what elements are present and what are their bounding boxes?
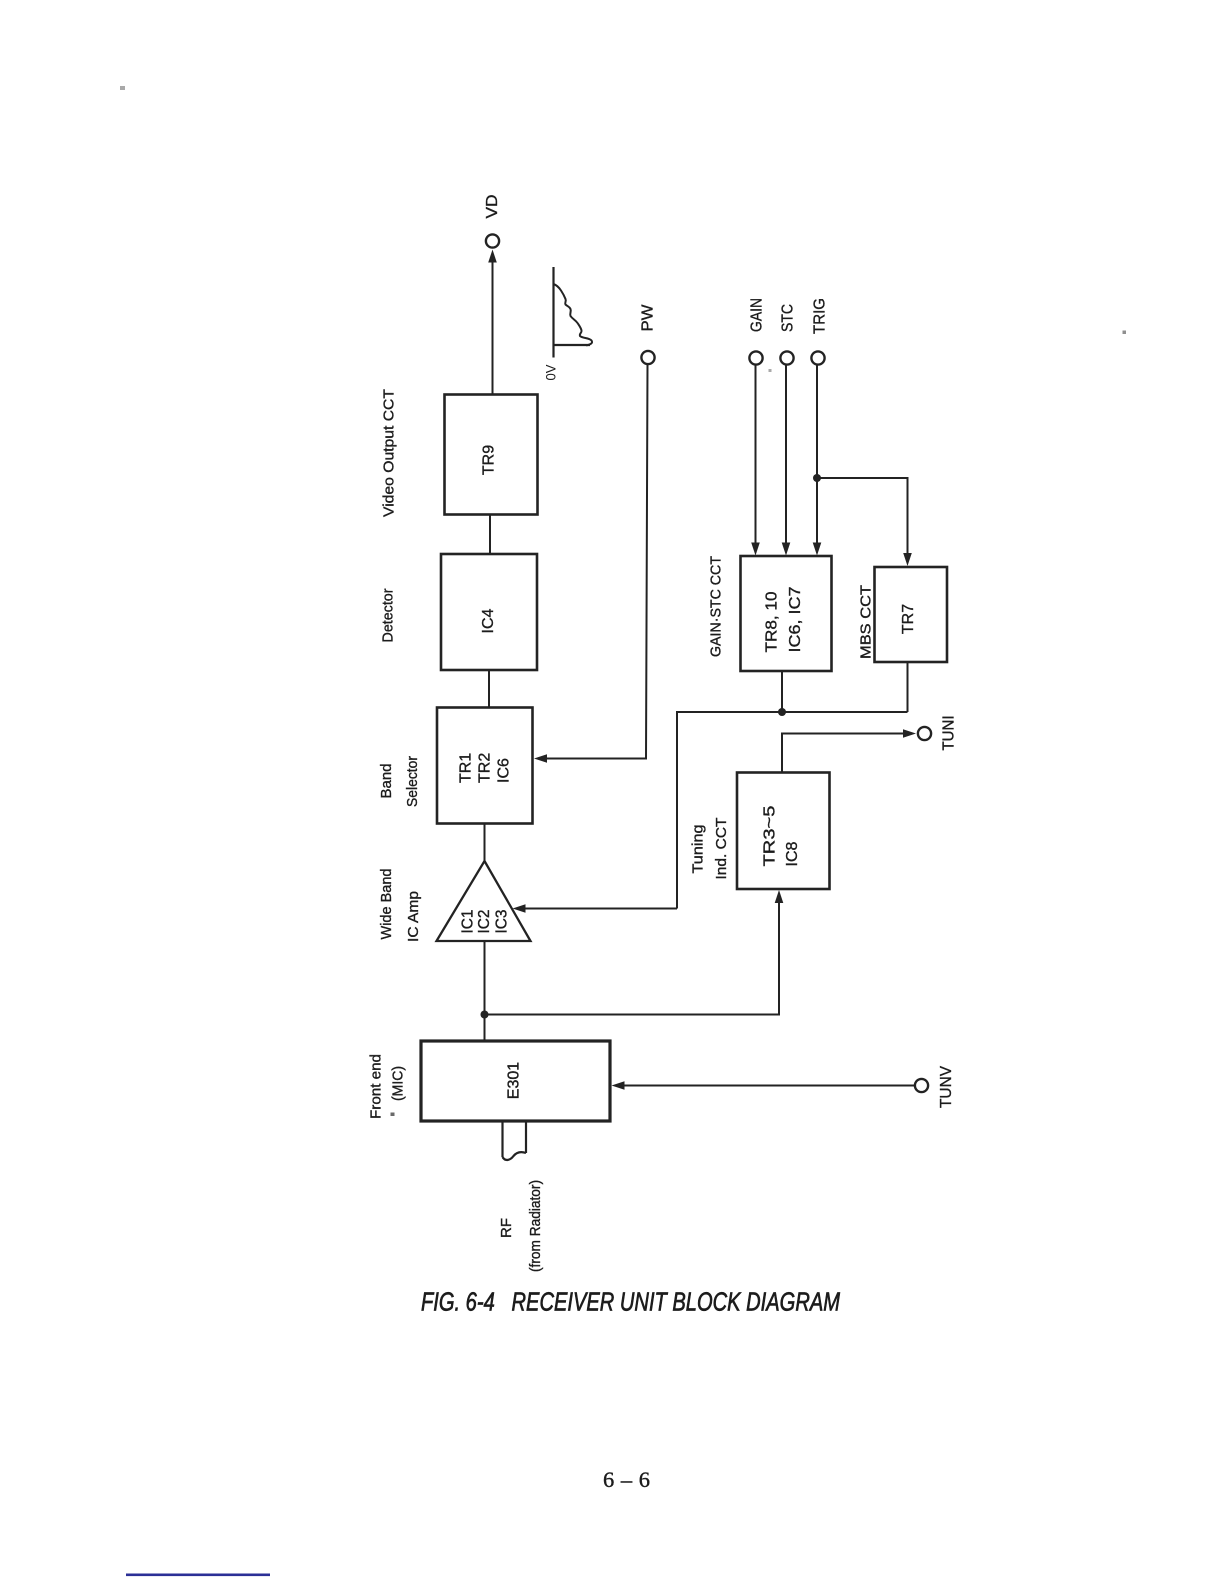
terminal PW [641, 351, 654, 364]
wire TRIG input [816, 365, 818, 544]
svg-text:TR7: TR7 [900, 604, 917, 634]
terminal STC [780, 351, 793, 364]
svg-text:Front end: Front end [368, 1054, 385, 1119]
block IC4 Detector [441, 554, 537, 670]
stray mark near MIC [391, 1113, 395, 1117]
block E301 Front end [421, 1041, 610, 1121]
wire Band Selector to amp [484, 823, 486, 861]
svg-text:Detector: Detector [380, 589, 397, 643]
svg-text:TR9: TR9 [481, 445, 498, 475]
arrow into GAIN-STC from GAIN [751, 543, 760, 556]
arrow into E301 from TUNV [612, 1081, 625, 1090]
arrow into Band Selector from PW [534, 754, 547, 763]
wire STC input [785, 365, 787, 544]
svg-text:Tuning: Tuning [690, 825, 707, 874]
svg-text:IC6, IC7: IC6, IC7 [787, 586, 804, 652]
block TR7 MBS CCT [875, 567, 948, 662]
svg-text:TRIG: TRIG [812, 298, 829, 334]
svg-text:Wide Band: Wide Band [378, 869, 395, 940]
svg-text:TR2: TR2 [477, 753, 494, 783]
svg-text:E301: E301 [506, 1062, 523, 1099]
amp triangle IC1 IC2 IC3 [437, 861, 531, 941]
RF stub waveguide [503, 1121, 527, 1160]
wire GAIN-STC bottom [781, 671, 783, 712]
wire TR9 to IC4 [489, 514, 491, 554]
svg-text:RF: RF [498, 1218, 515, 1238]
svg-text:IC Amp: IC Amp [405, 891, 422, 942]
svg-text:GAIN: GAIN [749, 298, 766, 332]
wire IC4 to Band Selector [488, 670, 490, 708]
terminal TRIG [811, 351, 824, 364]
svg-text:MBS CCT: MBS CCT [858, 585, 875, 659]
svg-text:(MIC): (MIC) [390, 1066, 407, 1101]
svg-text:TUNI: TUNI [941, 716, 958, 751]
svg-text:TUNV: TUNV [938, 1066, 955, 1108]
svg-text:IC1: IC1 [460, 909, 477, 933]
svg-text:VD: VD [484, 195, 501, 219]
stray mark top left [120, 86, 125, 90]
block TR3-5 IC8 Tuning Ind CCT [737, 773, 830, 890]
wire net to amp [524, 908, 677, 910]
stray speck right [1123, 331, 1127, 335]
node gain-stc junction [778, 708, 786, 716]
wire node A to tuning cct [485, 902, 780, 1015]
arrow into MBS [903, 553, 912, 566]
svg-text:IC2: IC2 [476, 909, 493, 933]
svg-text:Selector: Selector [404, 756, 421, 807]
svg-text:(from Radiator): (from Radiator) [527, 1180, 544, 1272]
svg-text:PW: PW [640, 304, 657, 332]
svg-text:IC6: IC6 [496, 758, 513, 783]
footer rule [126, 1574, 270, 1577]
waveform sketch [554, 267, 593, 358]
terminal VD [486, 234, 499, 247]
block TR1 TR2 IC6 Band Selector [437, 708, 533, 824]
wire VD output [492, 262, 494, 394]
svg-text:0V: 0V [543, 364, 559, 381]
arrow to VD [488, 250, 497, 263]
wire MBS bottom [907, 662, 909, 712]
wire TRIG to MBS [817, 478, 908, 554]
wire GAIN input [755, 365, 757, 544]
wire PW to Band Selector [546, 365, 648, 759]
arrow to TUNI [903, 729, 916, 738]
svg-text:GAIN·STC CCT: GAIN·STC CCT [708, 556, 725, 657]
wire TR3-5 to TUNI [782, 734, 906, 773]
svg-text:Video Output CCT: Video Output CCT [381, 389, 398, 517]
svg-text:IC8: IC8 [784, 842, 801, 867]
svg-text:IC4: IC4 [480, 608, 497, 633]
node TRIG junction [813, 474, 821, 482]
terminal GAIN [749, 351, 762, 364]
wire gain-stc net [677, 712, 908, 909]
terminal TUNI [918, 727, 931, 740]
svg-text:TR1: TR1 [458, 753, 475, 783]
block TR8 10 IC6 IC7 GAIN-STC CCT [741, 556, 832, 671]
block TR9 Video Output CCT [445, 395, 538, 515]
node A junction [481, 1011, 489, 1019]
arrow into TR3-5 [775, 890, 784, 903]
svg-text:Ind. CCT: Ind. CCT [713, 818, 730, 880]
terminal TUNV [915, 1079, 928, 1092]
svg-text:TR3~5: TR3~5 [762, 805, 779, 866]
svg-text:Band: Band [378, 764, 395, 799]
wire TUNV to E301 [624, 1085, 915, 1087]
svg-text:STC: STC [780, 304, 797, 332]
arrow into GAIN-STC from STC [782, 543, 791, 556]
wire amp to node A [484, 941, 486, 1041]
svg-text:6 – 6: 6 – 6 [603, 1467, 650, 1492]
svg-text:FIG. 6-4 RECEIVER UNIT BLOCK: FIG. 6-4 RECEIVER UNIT BLOCK DIAGRAM [421, 1289, 841, 1317]
stray speck near GAIN [769, 369, 772, 372]
arrow into amp [513, 904, 526, 913]
svg-text:TR8, 10: TR8, 10 [764, 591, 781, 652]
arrow into GAIN-STC from TRIG [813, 543, 822, 556]
svg-text:IC3: IC3 [494, 909, 511, 933]
